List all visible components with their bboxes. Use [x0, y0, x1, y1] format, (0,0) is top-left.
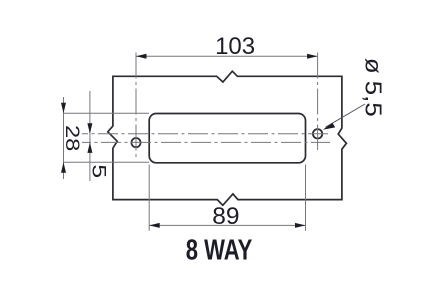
dimension 5 — [87, 91, 109, 181]
svg-text:5: 5 — [88, 164, 110, 178]
hole right — [313, 129, 322, 138]
cutout rounded rectangle — [149, 114, 305, 163]
dimension 28 — [61, 97, 149, 179]
svg-text:8 WAY: 8 WAY — [186, 235, 253, 267]
label 8 WAY — [186, 235, 253, 267]
svg-text:89: 89 — [212, 203, 239, 230]
hole left — [131, 138, 140, 147]
svg-text:ø 5,5: ø 5,5 — [360, 58, 386, 117]
centerline lower horizontal — [82, 141, 330, 143]
leader with label dia 5,5 — [323, 58, 386, 130]
dimension 89 — [149, 165, 305, 231]
centerline vertical through left hole — [135, 53, 137, 158]
plate outline with break marks — [108, 71, 347, 205]
svg-text:103: 103 — [215, 33, 255, 60]
centerline upper horizontal — [82, 133, 330, 135]
svg-text:28: 28 — [62, 125, 83, 151]
centerline vertical through right hole — [317, 53, 319, 151]
dimension 103 — [136, 33, 318, 60]
